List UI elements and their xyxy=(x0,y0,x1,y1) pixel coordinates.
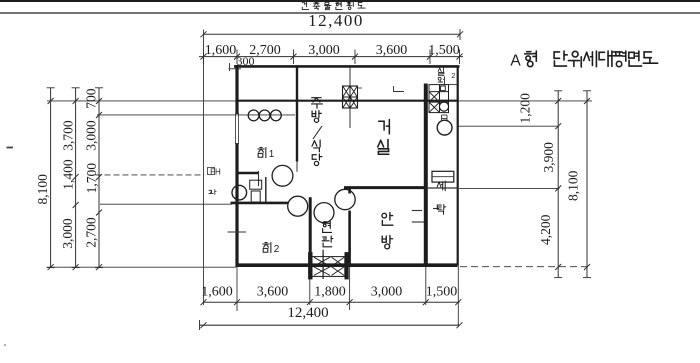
svg-text:3,600: 3,600 xyxy=(257,285,289,300)
bathroom door arc circle xyxy=(272,165,293,186)
svg-text:3,000: 3,000 xyxy=(60,218,75,249)
svg-text:3,000: 3,000 xyxy=(308,43,340,58)
dim line 12,400 (top) xyxy=(204,33,461,35)
wardrobe circles in bed1 xyxy=(248,110,281,121)
ext line y=126 right xyxy=(457,125,559,127)
dim text 3,700 left xyxy=(60,120,75,151)
tick on left wall of bed2 xyxy=(228,231,247,233)
right exterior wall xyxy=(457,66,459,266)
dim text 8,100 left xyxy=(35,174,50,205)
dim text 1,700 left xyxy=(84,163,99,194)
svg-text:3,600: 3,600 xyxy=(376,43,408,58)
ext line x=458.3 bottom xyxy=(457,266,459,328)
svg-text:2: 2 xyxy=(451,71,455,80)
svg-text:4,200: 4,200 xyxy=(538,214,553,245)
svg-text:3,000: 3,000 xyxy=(371,285,403,300)
label 주방/식당 (kitchen/dining) xyxy=(312,98,323,166)
svg-text:12,400: 12,400 xyxy=(287,305,328,321)
window in left wall xyxy=(235,114,238,144)
dim text 4,200 right xyxy=(538,214,553,245)
tick left end of 12,400 xyxy=(200,31,206,37)
washer box on balcony xyxy=(432,171,454,182)
svg-text:A: A xyxy=(510,53,521,70)
label 현관 (entrance) xyxy=(322,222,333,247)
left exterior wall lower xyxy=(235,144,238,267)
dim text 1,200 right xyxy=(517,93,532,124)
dim line right outer x=587 xyxy=(586,91,588,278)
svg-text:1,800: 1,800 xyxy=(314,285,346,300)
tick marks on master balcony wall xyxy=(412,209,439,223)
ext line x=425.8 bottom xyxy=(425,265,427,305)
ext line y=115 left xyxy=(97,114,295,116)
dim line 8,100 (left) xyxy=(50,88,52,268)
sheet top border line xyxy=(0,0,700,2)
ext line x=237 bottom xyxy=(236,267,238,311)
label 과 (pipe shaft) xyxy=(209,190,216,195)
svg-text:12,400: 12,400 xyxy=(308,11,364,30)
svg-text:1,400: 1,400 xyxy=(60,159,75,190)
dim text 2,700 left xyxy=(84,217,99,248)
dim text 300 xyxy=(229,54,255,71)
ext line x=309.8 bottom xyxy=(309,279,311,305)
dim text 700 left xyxy=(83,88,98,109)
balcony inner wall x=425.8 xyxy=(424,84,428,266)
bathroom inner partition xyxy=(265,177,267,202)
kitchen duct hatch column xyxy=(343,67,363,129)
toilet circle xyxy=(232,185,247,200)
svg-text:8,100: 8,100 xyxy=(35,174,50,205)
small mark in kitchen xyxy=(393,86,404,92)
dim texts top chain 1,600 2,700 3,000 3,600 1,500 xyxy=(205,43,460,58)
ticks left chains xyxy=(47,88,103,270)
dim text 12,400 (bottom) xyxy=(287,305,328,321)
ticks bottom 12,400 xyxy=(200,320,463,330)
dim line left chain B xyxy=(75,88,77,268)
header title text 건축물현황도 xyxy=(302,2,365,10)
ext line x=349.6 bottom xyxy=(349,265,351,310)
wall y=100.7 across plan xyxy=(236,100,458,102)
label 거실 (living room) xyxy=(378,120,390,155)
ext line y=175 left xyxy=(96,174,204,176)
svg-text:1,500: 1,500 xyxy=(426,285,458,300)
svg-text:8,100: 8,100 xyxy=(566,170,581,201)
svg-text:1: 1 xyxy=(269,149,275,160)
ext line y=188 right xyxy=(459,187,560,189)
svg-text:2: 2 xyxy=(274,244,280,255)
toilet tank rects xyxy=(250,180,262,202)
dim text 3,000 left C xyxy=(84,120,99,151)
label 세탁 (laundry on balcony) xyxy=(437,181,446,214)
ticks top chain xyxy=(200,50,462,65)
top exterior wall xyxy=(234,65,460,68)
svg-text:1,500: 1,500 xyxy=(428,43,460,58)
ext line y=267 right dashed xyxy=(460,266,590,268)
dim line top chain xyxy=(199,56,463,58)
extension line x=203.5 xyxy=(203,30,205,306)
svg-text:3,000: 3,000 xyxy=(84,120,99,151)
dim line 12,400 (bottom) xyxy=(199,324,460,326)
hall wall x=310 xyxy=(309,197,312,279)
dim texts bottom chain xyxy=(201,285,457,300)
wall between bed1 and kitchen x=297 xyxy=(296,66,298,172)
bathroom bottom wall xyxy=(231,202,289,205)
dim text 1,400 left xyxy=(60,159,75,190)
svg-text:700: 700 xyxy=(83,88,98,109)
header underline xyxy=(0,12,700,14)
entrance threshold hatch xyxy=(309,250,349,279)
ext line y=267.2 left xyxy=(47,266,236,268)
svg-text:FH: FH xyxy=(210,168,221,177)
balcony AC equipment hatch and fan circles xyxy=(429,71,458,135)
dim line left chain C xyxy=(98,88,100,268)
master bedroom left wall xyxy=(348,188,351,265)
bottom exterior wall xyxy=(236,263,458,267)
svg-text:3,900: 3,900 xyxy=(541,142,556,173)
ext line y=101 left xyxy=(47,100,236,102)
svg-text:1,200: 1,200 xyxy=(517,93,532,124)
ext line y=203.6 left xyxy=(100,203,232,205)
living/master divider wall xyxy=(344,186,458,189)
master bedroom door arc circle xyxy=(335,189,355,209)
bathroom top wall xyxy=(236,171,259,186)
svg-text:2,700: 2,700 xyxy=(84,217,99,248)
scan speck xyxy=(4,147,13,346)
ticks bottom chain xyxy=(200,299,461,305)
label 침2 (bedroom2) xyxy=(263,243,280,256)
tick right end of 12,400 xyxy=(457,29,463,40)
hall door arc circle xyxy=(288,196,308,216)
ticks right chains xyxy=(554,91,591,278)
dim text 3,000 left B xyxy=(60,218,75,249)
left exterior wall upper xyxy=(235,65,238,114)
dim line right inner x=558 xyxy=(557,91,559,278)
label 침1 (bedroom1) xyxy=(258,148,275,161)
svg-text:3,700: 3,700 xyxy=(60,120,75,151)
dim text 3,900 right xyxy=(541,142,556,173)
svg-text:1,600: 1,600 xyxy=(205,43,237,58)
svg-text:1,700: 1,700 xyxy=(84,163,99,194)
dim text 12,400 (top) xyxy=(308,11,364,30)
label 안방 (master bedroom) xyxy=(382,213,393,249)
entrance door arc circle xyxy=(314,203,334,223)
label FH xyxy=(208,168,222,177)
drawing title A형 단위세대평면도 xyxy=(510,51,657,70)
dim line bottom chain xyxy=(204,301,460,303)
dim text 8,100 right xyxy=(566,170,581,201)
svg-text:1,600: 1,600 xyxy=(201,285,233,300)
label 실외기 (AC outdoor unit) xyxy=(438,68,444,85)
ext line y=101 right xyxy=(458,100,592,102)
